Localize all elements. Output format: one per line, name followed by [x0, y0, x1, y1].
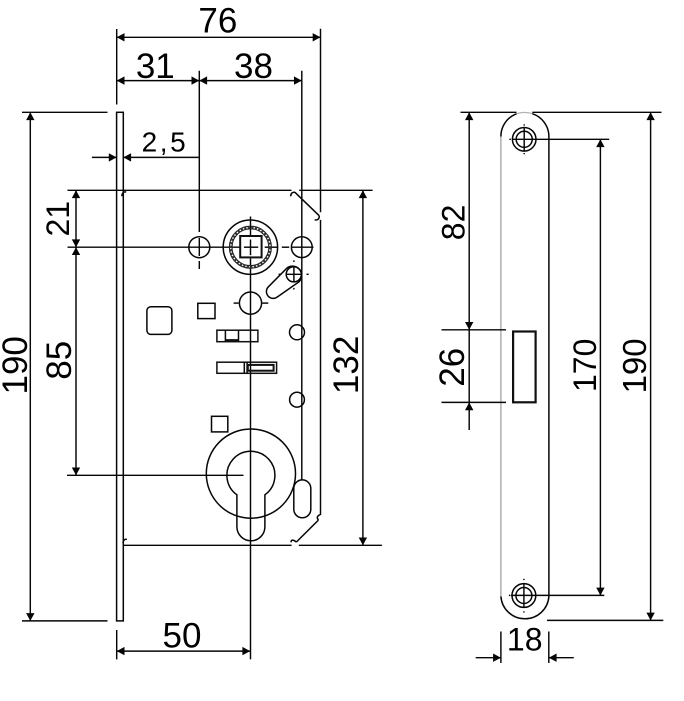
dim 190 right [547, 112, 663, 620]
oval slot right [294, 480, 311, 518]
spindle hub inner ring [232, 229, 269, 266]
dim 190 left [0, 112, 107, 621]
dim 82 / 26 [433, 112, 506, 430]
svg-text:18: 18 [507, 622, 543, 658]
small circle upper right [290, 325, 305, 340]
deadbolt bar [217, 362, 277, 373]
strike box [513, 332, 536, 403]
latch bar [217, 330, 258, 342]
vertical extension x=301.8 down to oval [301, 71, 303, 480]
dim 31 / 38 [117, 47, 302, 86]
corner tick top-left [122, 192, 126, 196]
svg-text:190: 190 [616, 338, 653, 393]
bottom chamfer [296, 520, 318, 542]
rounded square left [147, 307, 172, 335]
svg-text:31: 31 [136, 47, 175, 86]
svg-text:132: 132 [327, 336, 366, 394]
cylinder center h-line [67, 474, 244, 476]
small circle lower right [290, 392, 305, 407]
svg-text:76: 76 [198, 1, 237, 40]
top screw [509, 124, 536, 154]
cylinder outer circle [206, 429, 295, 518]
dim 76 [117, 1, 321, 104]
dim 21 / 85 [40, 190, 80, 475]
right screw hole [291, 237, 312, 258]
svg-text:2,5: 2,5 [142, 127, 189, 158]
latch follower circle [234, 292, 269, 314]
corner tick bottom-left [123, 539, 127, 543]
dim 18 [476, 622, 574, 663]
spindle center h-line [68, 246, 314, 248]
body bottom edge + extension line (132) [123, 544, 291, 546]
left screw hole [189, 237, 210, 258]
vertical center line x=250.5 [250, 217, 252, 237]
dim 50 [117, 616, 251, 659]
spindle hub outer circle [223, 220, 277, 274]
dim 2,5 [92, 127, 199, 162]
svg-text:26: 26 [433, 348, 472, 387]
spindle square hole [240, 236, 261, 257]
body right edge + extension up to 76 dim [320, 29, 322, 212]
small square 1 [198, 303, 215, 318]
top chamfer [295, 192, 320, 216]
dim 132 [327, 190, 367, 545]
body top edge + extension line (21/132) [68, 189, 292, 191]
top extension line [461, 111, 517, 113]
svg-text:82: 82 [435, 205, 471, 241]
plate left edge gray [500, 137, 502, 597]
plate outline black part [517, 112, 533, 113]
euro cylinder keyhole profile [227, 451, 275, 540]
svg-text:170: 170 [567, 339, 603, 392]
faceplate side bar [117, 112, 124, 621]
svg-text:21: 21 [40, 201, 76, 237]
svg-text:85: 85 [40, 341, 79, 380]
dim 170 [511, 139, 609, 595]
svg-text:38: 38 [234, 47, 273, 86]
svg-text:50: 50 [163, 616, 202, 655]
bottom screw [509, 579, 536, 613]
crossed small circle [279, 260, 309, 289]
vertical extension x=199.3 with dashes through left hole [198, 71, 200, 269]
kidney slot [266, 266, 301, 298]
small square 2 [212, 416, 228, 432]
svg-text:190: 190 [0, 336, 35, 394]
